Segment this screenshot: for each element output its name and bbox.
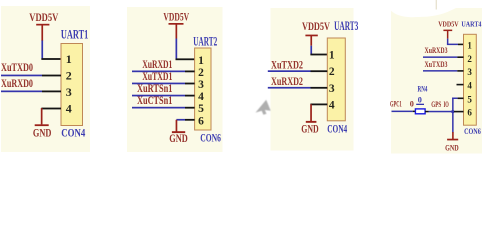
- svg-text:VDD5V: VDD5V: [438, 19, 459, 28]
- mouse cursor: [256, 100, 271, 115]
- wire XuTXD0 tile1: [1, 75, 42, 77]
- pin 3 CON4 tile1: [42, 91, 61, 93]
- wire VDD5V to pin1 tile3: [310, 46, 312, 55]
- sheet tile 3: [271, 8, 354, 151]
- wire XuRTSn1 tile2: [132, 95, 185, 97]
- sheet tile 1: [1, 6, 90, 152]
- svg-text:2: 2: [467, 54, 472, 64]
- pin 3 CON6 tile4: [457, 70, 463, 72]
- svg-text:CON6: CON6: [200, 132, 221, 145]
- ground symbol tile4: [447, 132, 458, 140]
- sheet tile 4: [391, 8, 482, 154]
- connector body UART4: [464, 34, 477, 125]
- svg-text:XuRTSn1: XuRTSn1: [137, 82, 173, 95]
- power bar symbol VDD5V tile1: [36, 24, 49, 41]
- svg-text:3: 3: [66, 85, 72, 99]
- pin 4 CON4 tile1: [41, 108, 61, 110]
- svg-text:XuTXD3: XuTXD3: [425, 60, 448, 69]
- svg-text:XuTXD2: XuTXD2: [271, 58, 303, 71]
- svg-text:GPC1: GPC1: [390, 100, 402, 109]
- svg-text:XuTXD1: XuTXD1: [142, 70, 172, 83]
- sheet background: [0, 0, 482, 158]
- svg-text:GPS: GPS: [431, 100, 441, 109]
- pin 1 CON6 tile2: [176, 58, 195, 60]
- pin 4 CON6 tile2: [185, 95, 195, 97]
- pin 1 CON6 tile4: [458, 44, 464, 46]
- wire XuTXD2 tile3: [268, 70, 311, 72]
- pin 1 CON4 tile3: [310, 54, 327, 56]
- sheet tile 2: [127, 7, 223, 152]
- svg-text:3: 3: [467, 67, 472, 77]
- svg-text:1: 1: [467, 40, 472, 50]
- notch tile 4: [391, 8, 456, 17]
- value 0 resistor: [416, 96, 424, 105]
- svg-text:2: 2: [66, 69, 72, 83]
- svg-text:CON4: CON4: [61, 127, 85, 140]
- pin 2 CON4 tile3: [311, 70, 328, 72]
- svg-text:XuCTSn1: XuCTSn1: [137, 94, 173, 107]
- wire VDD5V to pin1 tile4: [447, 39, 458, 46]
- pin 3 CON6 tile2: [185, 83, 195, 85]
- svg-text:RN4: RN4: [418, 85, 428, 94]
- wire XuTXD3 tile4: [423, 70, 457, 72]
- svg-text:XuRXD1: XuRXD1: [142, 58, 172, 71]
- svg-text:5: 5: [198, 103, 204, 115]
- connector body UART1: [61, 44, 83, 126]
- pin 5 CON6 tile2: [185, 107, 195, 109]
- pin 2 CON6 tile4: [457, 56, 463, 58]
- svg-text:UART4: UART4: [461, 19, 481, 28]
- pin 6 CON6 tile4: [454, 111, 464, 113]
- pin 3 CON4 tile3: [311, 87, 328, 89]
- svg-text:XuRXD0: XuRXD0: [1, 77, 33, 90]
- svg-text:GND: GND: [445, 144, 459, 153]
- wire pin5 to GND vertical tile4: [452, 98, 458, 133]
- wire stub top tile 4: [436, 0, 437, 10]
- wire XuRXD1 tile2: [132, 71, 185, 73]
- svg-text:6: 6: [467, 108, 472, 118]
- ground symbol tile1: [35, 108, 49, 126]
- ground symbol tile3: [306, 104, 317, 123]
- svg-text:UART3: UART3: [334, 19, 358, 33]
- svg-text:CON4: CON4: [327, 122, 347, 135]
- svg-text:GND: GND: [301, 122, 318, 135]
- pin 6 CON6 tile2: [185, 119, 195, 121]
- wire XuTXD1 tile2: [132, 83, 185, 85]
- svg-text:GND: GND: [169, 132, 188, 145]
- svg-text:VDD5V: VDD5V: [163, 11, 189, 24]
- svg-text:VDD5V: VDD5V: [29, 11, 58, 24]
- wire VDD5V to pin1 tile1: [41, 41, 43, 60]
- net label GPS IO: [431, 100, 449, 109]
- svg-text:0: 0: [418, 96, 422, 105]
- pin 2 CON4 tile1: [42, 75, 61, 77]
- svg-text:6: 6: [198, 115, 204, 127]
- wire XuCTSn1 tile2: [132, 107, 185, 109]
- svg-text:CON6: CON6: [464, 127, 481, 136]
- pin 4 CON4 tile3: [310, 104, 327, 106]
- svg-text:0: 0: [410, 100, 414, 109]
- net label GPC1 0: [390, 100, 414, 109]
- pin 2 CON6 tile2: [185, 71, 195, 73]
- svg-text:3: 3: [198, 79, 204, 91]
- wire GND to pin6 tile2: [176, 119, 185, 121]
- svg-text:4: 4: [198, 91, 204, 103]
- wire XuRXD2 tile3: [268, 87, 311, 89]
- svg-text:4: 4: [329, 99, 335, 111]
- pin 4 CON6 tile4: [457, 84, 464, 86]
- svg-text:XuTXD0: XuTXD0: [1, 61, 33, 74]
- svg-text:2: 2: [329, 66, 335, 78]
- wire XuRXD0 tile1: [1, 91, 42, 93]
- ground symbol tile2: [172, 120, 185, 133]
- resistor RN4 body: [415, 109, 425, 114]
- svg-text:5: 5: [467, 94, 472, 104]
- svg-text:GND: GND: [33, 127, 52, 140]
- svg-text:IO: IO: [444, 100, 449, 109]
- connector body UART3: [327, 38, 345, 121]
- svg-text:XuRXD2: XuRXD2: [271, 75, 303, 88]
- svg-text:XuRXD3: XuRXD3: [425, 46, 448, 55]
- svg-text:1: 1: [66, 52, 72, 66]
- svg-text:3: 3: [329, 83, 335, 95]
- svg-text:VDD5V: VDD5V: [302, 20, 330, 33]
- wire resistor to pin6: [425, 111, 452, 113]
- pin 5 CON6 tile4: [458, 98, 464, 100]
- svg-text:4: 4: [66, 102, 72, 116]
- svg-text:1: 1: [198, 55, 204, 67]
- svg-text:UART1: UART1: [61, 27, 88, 41]
- svg-text:UART2: UART2: [193, 34, 217, 48]
- wire VDD5V to pin1 tile2: [176, 39, 178, 60]
- power bar symbol VDD5V tile3: [305, 35, 317, 46]
- wire XuRXD3 tile4: [423, 56, 457, 58]
- svg-text:2: 2: [198, 67, 204, 79]
- pin 1 CON4 tile1: [41, 58, 61, 60]
- power bar symbol VDD5V tile2: [169, 23, 184, 39]
- connector body UART2: [195, 48, 211, 130]
- wire GPC1 to resistor: [392, 111, 416, 113]
- junction pin6 net: [451, 110, 454, 113]
- svg-text:1: 1: [329, 50, 335, 62]
- svg-text:4: 4: [467, 81, 472, 91]
- power bar symbol VDD5V tile4: [443, 30, 452, 39]
